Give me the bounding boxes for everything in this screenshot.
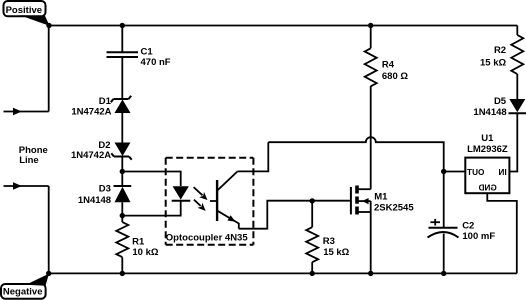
svg-text:15 kΩ: 15 kΩ	[323, 247, 349, 258]
wire U1 OUT to node C	[444, 171, 466, 173]
wire node C to C2	[443, 172, 445, 228]
svg-text:Line: Line	[19, 155, 39, 166]
node Positive flag	[4, 1, 52, 28]
wire collector to U1 OUT with hop over drain	[268, 137, 443, 171]
svg-text:15 kΩ: 15 kΩ	[480, 57, 506, 68]
wire right rail to R2	[516, 26, 518, 36]
svg-text:R1: R1	[132, 237, 145, 248]
svg-text:LM2936Z: LM2936Z	[467, 144, 508, 155]
svg-text:D1: D1	[99, 96, 112, 107]
wire U1 GND to bottom rail	[487, 193, 517, 273]
svg-text:Phone: Phone	[19, 145, 48, 156]
svg-text:IN: IN	[498, 168, 506, 177]
svg-text:U1: U1	[481, 133, 494, 144]
svg-text:680 Ω: 680 Ω	[382, 71, 408, 82]
wire D5 to U1 IN	[509, 113, 517, 171]
node junction top rail / C1	[120, 23, 125, 28]
wire node A to opto LED anode	[122, 172, 180, 187]
svg-text:1N4148: 1N4148	[78, 195, 111, 206]
svg-text:OUT: OUT	[467, 168, 484, 177]
svg-text:C2: C2	[462, 220, 474, 231]
transistor opto phototransistor	[210, 171, 239, 228]
resistor R1	[116, 222, 159, 258]
wire bottom rail	[49, 272, 517, 274]
svg-text:D3: D3	[99, 184, 111, 195]
wire C1 to D1	[121, 57, 123, 99]
svg-text:100 mF: 100 mF	[462, 231, 495, 242]
wire opto LED cathode to node B	[122, 201, 180, 216]
wire left rail lower	[48, 186, 50, 273]
node Negative flag	[1, 271, 51, 299]
diode D2 zener	[71, 140, 132, 161]
wire opto emitter out	[239, 201, 350, 229]
node junction C	[441, 169, 446, 174]
svg-text:1N4742A: 1N4742A	[71, 107, 111, 118]
resistor R2	[480, 35, 523, 74]
wire M1 drain to R4	[370, 86, 372, 189]
node junction bottom rail / R1	[120, 271, 125, 276]
wire D3 to node B	[121, 202, 123, 222]
svg-text:Negative: Negative	[3, 286, 43, 297]
svg-text:C1: C1	[141, 46, 154, 57]
wire left rail upper	[48, 26, 50, 112]
wire opto collector out	[238, 142, 269, 171]
diode D3	[78, 184, 131, 207]
node junction bottom rail / C2	[441, 271, 446, 276]
wire D1 to D2	[121, 113, 123, 143]
wire phone line top lead with arrow	[4, 108, 49, 115]
wire M1 source to bottom rail	[370, 212, 372, 273]
resistor R3	[306, 201, 349, 274]
diode opto LED	[172, 186, 191, 201]
svg-text:R3: R3	[323, 236, 335, 247]
diode D1 zener	[71, 96, 131, 118]
capacitor C2	[428, 219, 496, 242]
node junction gate / R3	[310, 198, 315, 203]
svg-text:10 kΩ: 10 kΩ	[132, 247, 158, 258]
svg-text:2SK2545: 2SK2545	[374, 203, 414, 214]
wire top rail	[49, 25, 518, 27]
wire C1 top lead	[121, 26, 123, 53]
capacitor C1	[107, 46, 171, 68]
wire phone line bottom lead with arrow	[4, 182, 49, 189]
svg-text:D5: D5	[494, 96, 507, 107]
svg-text:470 nF: 470 nF	[141, 57, 171, 68]
node junction D3 / opto cathode	[120, 213, 125, 218]
svg-text:Optocoupler 4N35: Optocoupler 4N35	[166, 233, 249, 244]
svg-text:1N4742A: 1N4742A	[71, 150, 111, 161]
light arrows	[194, 187, 208, 211]
node Phone Line label	[19, 145, 48, 166]
node junction bottom rail / M1 source	[368, 271, 373, 276]
node junction top rail / R4	[368, 23, 373, 28]
wire C2 to bottom rail	[443, 234, 445, 274]
node junction bottom rail / R3	[310, 271, 315, 276]
svg-text:R2: R2	[494, 45, 506, 56]
svg-text:1N4148: 1N4148	[473, 107, 506, 118]
wire D2 to node A	[121, 157, 123, 187]
svg-text:M1: M1	[374, 191, 388, 202]
svg-text:R4: R4	[382, 60, 395, 71]
resistor R4	[365, 26, 409, 87]
node junction D2 / opto anode	[120, 169, 125, 174]
wire R1 to bottom rail	[121, 257, 123, 273]
transistor M1 MOSFET	[351, 186, 414, 215]
wire R2 to D5	[516, 74, 518, 99]
svg-text:Positive: Positive	[6, 5, 42, 16]
optocoupler U2 4N35 dashed box	[166, 158, 254, 245]
svg-text:GND: GND	[479, 184, 497, 193]
diode D5	[473, 96, 526, 118]
regulator U1 LM2936Z	[465, 133, 509, 193]
